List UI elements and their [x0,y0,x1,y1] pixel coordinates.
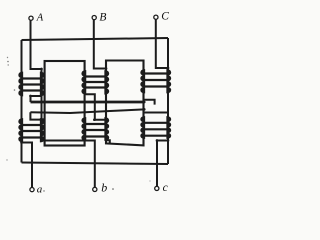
svg-text:a: a [37,183,43,195]
svg-text:b: b [101,180,107,194]
winding upper-right turn cross-links [144,74,169,87]
terminal C [154,15,158,19]
winding upper-middle turn cross-links [85,77,106,88]
svg-text:c: c [163,182,168,194]
winding upper-middle left-side turns [82,71,86,94]
junction dots [40,68,43,71]
wire mid bus lower [30,109,144,113]
winding upper-right right-side turns [167,70,171,93]
svg-text:B: B [99,11,106,23]
wire terminal A lead [31,20,42,72]
winding lower-right turn cross-links [144,123,169,136]
winding lower-left right-side turns [40,119,44,142]
terminal B [92,16,96,20]
wire terminal c lead [157,141,168,187]
winding lower-middle right-side turns [105,118,109,141]
wire mid limb link [95,102,106,120]
wire left limb lower tap step [30,112,43,119]
wire mid limb lower exit hook [106,140,110,143]
wire right limb link [144,112,168,114]
terminal A [29,16,33,20]
wire left limb upper tap step [31,96,42,102]
wire right outer column [167,38,169,164]
core window left [45,61,85,146]
wire terminal a lead [22,143,33,188]
core window right [106,61,144,146]
wire terminal b lead [42,141,95,188]
wire mid limb upper tap step [85,94,95,102]
wire terminal C lead [156,19,168,68]
winding upper-middle right-side turns [105,71,109,94]
terminal c [155,186,159,190]
winding upper-left turn cross-links [22,79,42,91]
winding lower-middle left-side turns [82,118,86,141]
winding upper-left left-side turns [19,72,23,96]
svg-text:C: C [161,11,169,23]
wire bottom bus [22,163,169,165]
svg-text:A: A [36,12,44,23]
winding upper-left right-side turns [40,72,44,96]
scan speckles (noise) [7,57,8,58]
wire terminal B lead [94,20,106,69]
winding upper-right left-side turns [141,70,145,93]
terminal b [93,187,97,191]
wire mid bus upper right hook [144,100,154,105]
winding lower-left left-side turns [19,119,23,142]
winding lower-right left-side turns [141,117,145,139]
wire mid bus upper [31,101,145,104]
winding lower-left turn cross-links [22,125,42,138]
winding lower-right right-side turns [167,117,171,139]
wire left inner column [41,69,43,141]
wire top bus [22,38,169,40]
terminal a [30,188,34,192]
winding lower-middle turn cross-links [85,124,106,137]
wire left outer column [21,40,23,163]
